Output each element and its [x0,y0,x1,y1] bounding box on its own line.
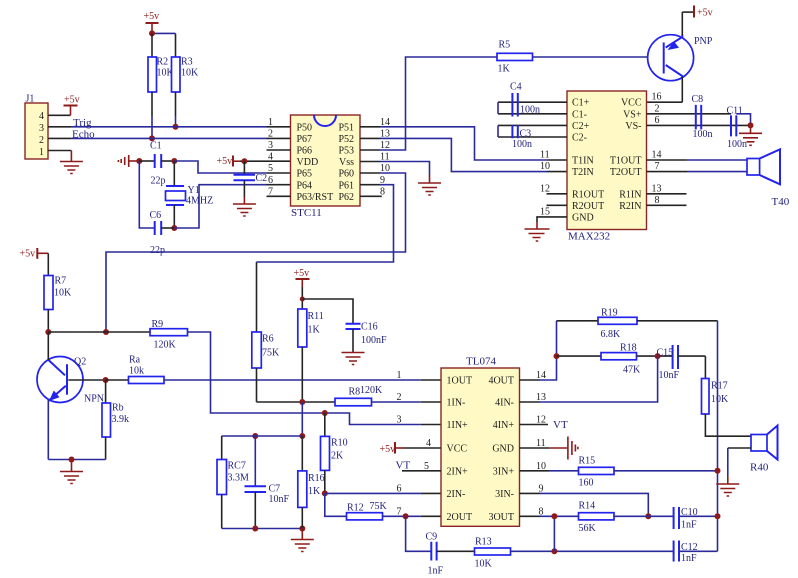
svg-text:T2OUT: T2OUT [610,167,642,178]
node emitter rail ground [69,457,75,463]
capacitor C11 [727,105,748,150]
pin 4 stub [48,114,71,116]
svg-text:P64: P64 [297,180,313,191]
svg-text:R19: R19 [601,308,618,319]
wire GND pin to ground [537,217,567,222]
svg-text:R1OUT: R1OUT [572,189,604,200]
svg-text:100n: 100n [520,105,540,116]
svg-text:2K: 2K [331,451,344,462]
svg-text:RC7: RC7 [228,461,246,472]
svg-text:6: 6 [397,483,402,494]
svg-text:+5v: +5v [144,11,160,22]
svg-text:3: 3 [268,140,273,151]
svg-text:MAX232: MAX232 [568,231,610,243]
pin 8 stub [360,195,382,197]
svg-text:75K: 75K [262,348,280,359]
power +5v (R7) [20,248,49,276]
svg-text:GND: GND [492,444,514,455]
pin 13 stub [360,137,380,139]
ground (crystal C1 side) [118,155,139,167]
ground (R40) [716,476,739,496]
svg-text:Rb: Rb [112,403,124,414]
svg-text:10k: 10k [129,366,144,377]
svg-text:1IN+: 1IN+ [447,420,469,431]
svg-text:100nF: 100nF [361,335,387,346]
wire PNP collector to VCC [647,101,683,103]
svg-text:C16: C16 [361,322,378,333]
svg-text:1: 1 [397,370,402,381]
node R11/R8 junction [299,399,305,405]
svg-text:1nF: 1nF [428,566,444,577]
capacitor C16 [346,322,388,353]
resistor R7 [44,276,72,333]
svg-text:7: 7 [655,161,660,172]
svg-text:R16: R16 [308,473,325,484]
pin 3 stub [48,126,71,128]
node base/Rb junction [103,377,109,383]
resistor R10 [321,413,348,493]
svg-text:4: 4 [39,111,44,122]
svg-text:+5v: +5v [64,95,80,106]
ground (C16) [342,353,365,365]
pin R2OUT stub [547,204,568,206]
svg-text:2: 2 [39,135,44,146]
svg-text:47K: 47K [623,365,641,376]
capacitor C12 [674,541,718,565]
wire R6 bottom to R8 line [257,401,336,403]
svg-text:R10: R10 [331,438,348,449]
op-amp U3 TL074 [397,356,547,527]
node C7 bottom junction [252,526,258,532]
node 3IN- /pin8 line junction [645,513,651,519]
svg-text:6: 6 [655,115,660,126]
svg-text:3.3M: 3.3M [228,473,250,484]
pin 9 stub [360,184,380,186]
wire gnd loop to C6 [139,161,154,228]
svg-text:2: 2 [268,128,273,139]
resistor R2 [148,33,175,138]
svg-text:75K: 75K [370,501,388,512]
svg-text:T1IN: T1IN [572,156,594,167]
svg-text:C1-: C1- [572,109,587,120]
transistor Q3 PNP [648,12,713,102]
svg-text:P51: P51 [338,122,354,133]
pin R2IN stub [647,204,687,206]
wire R40 lower to ground [728,448,751,476]
svg-text:PNP: PNP [694,36,713,47]
svg-text:7: 7 [268,186,273,197]
svg-text:+5v: +5v [217,156,233,167]
node C10/right drop junction [715,513,721,519]
svg-text:R2OUT: R2OUT [572,201,604,212]
svg-text:16: 16 [652,92,662,103]
svg-text:NPN: NPN [84,394,104,405]
svg-text:VS-: VS- [625,121,641,132]
ground (C11/VS-) [739,125,762,145]
svg-text:P65: P65 [297,169,313,180]
svg-text:C4: C4 [510,82,522,93]
node 3OUT/R13 junction [551,513,557,519]
svg-text:VT: VT [553,419,568,431]
svg-text:VT: VT [396,460,411,472]
svg-text:C6: C6 [150,210,162,221]
resistor R11 [298,309,324,402]
wire R15 to right drop [614,470,718,472]
speaker T40 [747,149,790,208]
svg-text:VCC: VCC [447,444,468,455]
svg-text:2OUT: 2OUT [447,512,473,523]
wire Y1 bottom to P64 [174,185,266,228]
pin 3 stub [267,149,291,151]
wire P60 to collector node [106,173,406,332]
power +5v (VDD) [217,156,291,168]
svg-text:C8: C8 [692,94,704,105]
svg-text:10nF: 10nF [659,370,680,381]
svg-text:3: 3 [397,415,402,426]
svg-text:10K: 10K [711,394,729,405]
svg-text:10nF: 10nF [269,494,290,505]
svg-text:22p: 22p [151,176,166,187]
power +5v (J1 pin4) [64,95,80,116]
capacitor C8 [692,94,713,140]
svg-text:100n: 100n [727,139,747,150]
resistor R15 [579,456,615,489]
resistor R12 [347,501,388,520]
svg-text:2IN-: 2IN- [447,489,466,500]
wire collector node to R9 [48,331,150,333]
pin 7 stub [267,195,291,197]
svg-text:R18: R18 [620,343,637,354]
svg-text:C12: C12 [681,542,698,553]
svg-text:Ra: Ra [129,355,141,366]
wire 3IN- jog [520,492,541,494]
wire Echo net [71,129,290,141]
svg-text:TL074: TL074 [466,356,496,368]
pin 14 stub [360,126,380,128]
svg-text:C10: C10 [681,507,698,518]
wire T2OUT to T40 [647,171,688,173]
svg-text:1K: 1K [498,64,511,75]
svg-text:10K: 10K [54,288,72,299]
svg-text:VCC: VCC [621,98,642,109]
svg-text:GND: GND [572,212,594,223]
svg-text:C15: C15 [657,348,674,359]
capacitor C2 [234,161,268,197]
net label VT (4IN+) [520,419,568,431]
wire bottom rail [222,528,303,530]
svg-text:R5: R5 [499,40,511,51]
resistor R17 [702,356,752,436]
svg-text:+5v: +5v [20,249,36,260]
wire T1OUT to T40 [647,159,688,161]
pin 12 stub [360,149,380,151]
svg-text:12: 12 [540,183,550,194]
capacitor C1 [139,141,174,187]
svg-text:P52: P52 [338,134,354,145]
pin 2 stub [48,137,71,139]
op-amp U2 MAX232 [540,91,687,243]
svg-text:10K: 10K [475,559,493,570]
resistor R8 [335,385,383,406]
wire 2OUT down to C9 [406,516,432,551]
transistor Q2 NPN [37,332,106,460]
resistor R16 [298,436,325,529]
node C16 tap junction [300,297,305,302]
svg-text:T2IN: T2IN [572,167,594,178]
resistor R5 [497,40,533,75]
wire R8 to 1IN- [372,401,421,403]
svg-text:3OUT: 3OUT [488,512,514,523]
resistor R9 [150,319,188,351]
svg-text:VDD: VDD [297,157,319,168]
svg-text:R15: R15 [579,456,596,467]
svg-text:Y1: Y1 [188,185,200,196]
resistor R19 [557,308,718,341]
wire R13 node up to pin8 line [553,516,555,551]
pin R1OUT stub [547,193,568,195]
resistor R14 [579,501,615,535]
wire Y1 top to P65 [174,161,266,173]
resistor R3 [172,33,200,126]
svg-text:1nF: 1nF [681,553,697,564]
wire P52 to T2IN [380,138,547,171]
svg-text:C1+: C1+ [572,98,590,109]
svg-text:100n: 100n [693,129,713,140]
svg-text:Q2: Q2 [74,357,86,368]
wire bias rail [222,435,303,437]
op-amp U1 STC11 [267,115,391,219]
svg-text:R12: R12 [347,503,364,514]
svg-text:5: 5 [268,163,273,174]
svg-text:1OUT: 1OUT [447,376,473,387]
svg-text:R8: R8 [349,387,361,398]
capacitor C9 [426,532,475,577]
resistor R6 [252,332,280,402]
resistor R13 [475,537,511,570]
svg-text:C1: C1 [150,141,162,152]
svg-text:56K: 56K [579,523,597,534]
svg-text:T40: T40 [772,196,790,208]
wire R14 to C10 [614,515,674,517]
svg-text:1: 1 [268,117,273,128]
svg-text:R7: R7 [55,276,67,287]
svg-text:4OUT: 4OUT [488,376,514,387]
svg-text:C2+: C2+ [572,121,590,132]
svg-text:6.8K: 6.8K [601,329,622,340]
svg-text:Vss: Vss [339,157,354,168]
svg-text:+5v: +5v [294,268,310,279]
pin R1IN stub [647,193,687,195]
svg-text:R40: R40 [750,462,769,474]
ground (MAX232 GND) [525,222,550,241]
ground (Vss) [418,175,441,195]
svg-text:P62: P62 [338,192,354,203]
node R10/2IN- junction [322,490,328,496]
connector J1 [25,94,71,160]
wire P53 to R5 [380,57,497,150]
node R2/Echo junction [149,135,155,141]
svg-text:14: 14 [652,150,662,161]
svg-text:C7: C7 [269,484,281,495]
node C7 top junction [252,433,258,439]
wire 4IN- to R18 node [520,401,541,403]
svg-text:8: 8 [380,186,385,197]
node R3/Trig junction [173,124,179,130]
svg-text:160: 160 [579,478,594,489]
svg-text:4: 4 [268,152,273,163]
wire Ra to 1OUT [164,379,421,381]
svg-text:R14: R14 [579,501,596,512]
svg-text:7: 7 [397,506,402,517]
svg-text:3: 3 [39,123,44,134]
node R10 top junction [322,410,328,416]
svg-text:2: 2 [397,392,402,403]
ground (bias network) [291,529,314,552]
svg-text:1K: 1K [308,486,321,497]
svg-text:C9: C9 [426,532,438,543]
svg-text:P63/RST: P63/RST [297,192,334,203]
speaker R40 [750,426,778,474]
svg-text:1IN-: 1IN- [447,398,466,409]
svg-text:1nF: 1nF [681,520,697,531]
wire R9 to 1IN+ [188,332,421,425]
wire VS- row [647,124,751,126]
svg-text:11: 11 [540,150,550,161]
svg-text:C2: C2 [256,173,268,184]
node bias rail junction [299,433,305,439]
svg-text:R2IN: R2IN [619,201,641,212]
resistor RC7 [217,436,249,529]
node P60 drop junction [103,329,109,335]
svg-text:2: 2 [655,103,660,114]
node R7/collector junction [45,329,51,335]
svg-text:R11: R11 [308,311,324,322]
wire 4OUT up to R19/R18 [520,379,541,381]
svg-text:4IN+: 4IN+ [493,420,515,431]
wire R5 to PNP base [533,56,648,58]
svg-text:R1IN: R1IN [619,189,641,200]
capacitor C7 [245,436,290,529]
svg-text:R6: R6 [262,334,274,345]
node VDD/C2 junction [241,158,247,164]
power +5v (R2/R3 pullups) [144,11,160,33]
svg-text:P61: P61 [338,180,354,191]
net label VT (2IN+) [396,460,442,472]
wire VS+ row [647,113,732,115]
svg-text:1: 1 [39,147,44,158]
pin 10 stub [360,172,380,174]
svg-text:VS+: VS+ [623,109,642,120]
node ground rail junction [299,526,305,532]
svg-text:13: 13 [652,183,662,194]
svg-text:C3: C3 [520,128,532,139]
capacitor C3 [498,125,567,150]
resistor R18 [557,343,673,376]
svg-text:T1OUT: T1OUT [610,156,642,167]
wire R11 node down to bias rail [301,402,303,436]
svg-text:R17: R17 [711,381,728,392]
svg-text:8: 8 [655,195,660,206]
ground (TL074 GND sideways) [520,437,578,460]
wire Vss to ground [380,162,430,176]
wire +5v node to R3 [152,32,176,34]
wire R19 right drop [717,321,719,552]
power +5v (TL074 VCC) [380,442,442,455]
pin 11 stub [360,161,380,163]
svg-text:120K: 120K [360,385,383,396]
svg-text:10K: 10K [181,68,199,79]
svg-text:1K: 1K [308,325,321,336]
node VS-/ground junction [748,122,754,128]
svg-text:10: 10 [540,161,550,172]
wire Trig net [71,117,290,129]
crystal Y1 [166,161,214,228]
wire 3IN+ to R15 [520,470,550,472]
wire P61 to R6 [257,185,394,262]
svg-text:P60: P60 [338,169,354,180]
svg-text:P53: P53 [338,146,354,157]
svg-text:120K: 120K [154,340,177,351]
svg-text:R9: R9 [152,319,164,330]
wire P51 to T1IN [380,127,547,160]
ground (C2) [233,197,256,216]
svg-text:+5v: +5v [697,8,713,19]
svg-text:3IN-: 3IN- [495,489,514,500]
capacitor C6 [150,210,175,256]
wire R13 to C12 [511,550,674,552]
svg-text:+5v: +5v [380,444,396,455]
svg-text:P50: P50 [297,122,313,133]
resistor Ra [106,355,164,384]
svg-text:100n: 100n [512,139,532,150]
wire 3OUT line [520,515,541,517]
ground (J1 pin1) [60,151,83,174]
svg-text:R3: R3 [181,57,193,68]
svg-text:15: 15 [540,206,550,217]
wire C11 to ground node [736,114,750,126]
capacitor C10 [674,507,718,531]
node C1/Y1 junction [171,158,177,164]
node 2OUT/C9 junction [403,513,409,519]
svg-text:6: 6 [268,175,273,186]
svg-text:R13: R13 [475,537,492,548]
svg-text:3IN+: 3IN+ [493,466,515,477]
svg-text:22p: 22p [150,245,165,256]
svg-text:C11: C11 [727,105,743,116]
svg-text:4IN-: 4IN- [495,398,514,409]
svg-text:P67: P67 [297,134,313,145]
node C1 left junction [136,158,142,164]
svg-text:STC11: STC11 [291,207,322,219]
node Y1/C6 junction [171,225,177,231]
capacitor C4 [498,82,567,117]
svg-text:2IN+: 2IN+ [447,466,469,477]
node +5v/R2 junction [149,30,155,36]
svg-text:3.9k: 3.9k [112,414,130,425]
node R18/C15/4IN- junction [655,353,661,359]
ground (Q2 emitter) [60,460,83,484]
wire emitter rail [48,459,105,461]
power +5v (PNP emitter) [682,6,712,19]
resistor Rb [102,380,129,460]
svg-text:C2-: C2- [572,133,587,144]
pin 1 stub [48,150,71,152]
node R13/pin8 branch junction [551,548,557,554]
node R18 left junction [554,353,560,359]
power +5v (R11) [294,268,310,309]
wire R12 to 2OUT [383,515,421,517]
wire C16 branch [302,299,353,324]
